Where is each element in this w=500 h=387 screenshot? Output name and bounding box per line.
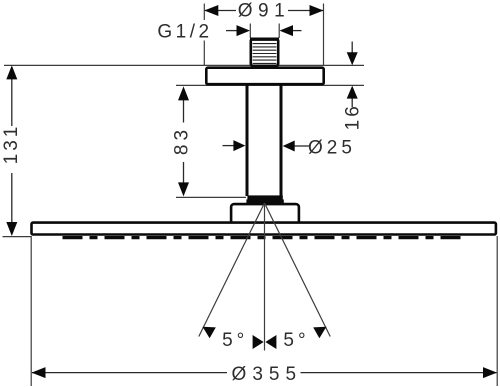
5° right outer arrowhead bbox=[313, 327, 326, 338]
pipe bbox=[247, 86, 281, 197]
svg-text:83: 83 bbox=[172, 126, 193, 155]
escutcheon base bbox=[231, 204, 299, 226]
spray fan lines bbox=[199, 203, 330, 351]
collar (threaded pipe end) bbox=[247, 195, 282, 200]
svg-text:Ø91: Ø91 bbox=[238, 1, 290, 22]
wire: 83 dim line lower bbox=[183, 162, 185, 183]
16 dimension (right) bbox=[351, 42, 353, 108]
thread right extension line bbox=[278, 24, 280, 39]
Ø91 right arrowhead bbox=[310, 5, 324, 16]
wire: 16 dim line above bbox=[351, 42, 353, 54]
Ø25 label with pointer bbox=[294, 145, 310, 147]
wire: G1/2 left pointer line bbox=[226, 30, 238, 32]
plate bottom-left extension line (131 dim) bbox=[3, 236, 32, 238]
svg-text:5°: 5° bbox=[283, 330, 309, 351]
Ø91 left arrowhead bbox=[204, 5, 218, 16]
wire: Ø355 dim line left bbox=[32, 372, 227, 374]
Ø91 dimension bbox=[205, 10, 323, 12]
83 top arrowhead bbox=[178, 86, 189, 100]
Ø25 pointer arrowhead bbox=[283, 141, 295, 152]
wire: 83 pointer line to pipe bbox=[223, 145, 236, 147]
svg-text:16: 16 bbox=[343, 103, 364, 130]
wire: 131 dim line upper bbox=[11, 79, 13, 127]
thread left extension line bbox=[249, 24, 251, 39]
wire: pipe left wall bbox=[246, 86, 249, 197]
flange plate bbox=[206, 68, 323, 85]
wire: Ø91 dim line left bbox=[205, 10, 236, 12]
flange top extension line bbox=[4, 64, 364, 66]
collar lower nut bbox=[246, 199, 283, 203]
shower plate bbox=[32, 223, 496, 235]
5° bowtie right arrowhead bbox=[265, 335, 276, 349]
wire: Ø25 pointer line bbox=[294, 145, 310, 147]
131 top arrowhead bbox=[6, 65, 17, 79]
thread body fill bbox=[251, 39, 278, 66]
G1/2 pointer arrows bbox=[226, 30, 302, 32]
83 bottom arrowhead bbox=[178, 182, 189, 196]
wire: 131 dim line lower bbox=[11, 173, 13, 224]
Ø355 right extension line bbox=[496, 236, 498, 386]
131 bottom arrowhead bbox=[6, 222, 17, 236]
wire: G1/2 right pointer line bbox=[292, 30, 302, 32]
pipe bottom extension line (83 dim) bbox=[176, 196, 246, 198]
131 dimension (left) bbox=[11, 79, 13, 224]
5° bowtie left arrowhead bbox=[253, 335, 264, 349]
nozzle dashes bbox=[63, 236, 467, 239]
Ø91 left extension line (upper) bbox=[203, 4, 205, 21]
83 pointer arrowhead at pipe bbox=[233, 140, 245, 151]
83 dimension (left of pipe) bbox=[184, 100, 236, 184]
Ø355 left arrowhead bbox=[32, 367, 46, 378]
svg-text:5°: 5° bbox=[222, 330, 248, 351]
wire: center spray line bbox=[264, 203, 266, 351]
flange bottom extension line bbox=[176, 84, 364, 86]
thread top thick edge bbox=[250, 38, 279, 41]
wire: right spray diagonal bbox=[265, 203, 331, 337]
wire: left spray diagonal bbox=[199, 203, 265, 337]
svg-text:Ø25: Ø25 bbox=[308, 138, 356, 159]
Ø355 left extension line bbox=[30, 236, 32, 386]
G1/2 left pointer arrowhead bbox=[237, 25, 251, 36]
5° left outer arrowhead bbox=[203, 327, 216, 338]
Ø91 right extension line bbox=[323, 4, 325, 67]
svg-text:Ø355: Ø355 bbox=[232, 364, 302, 385]
thread block G1/2 connector bbox=[250, 39, 279, 66]
Ø91 left extension line (lower, below G1/2 text) bbox=[203, 41, 205, 67]
svg-text:G1/2: G1/2 bbox=[157, 21, 212, 42]
Ø355 right arrowhead bbox=[483, 367, 497, 378]
wire: Ø355 dim line right bbox=[301, 372, 497, 374]
wire: pipe right wall bbox=[280, 86, 283, 197]
Ø355 dimension bbox=[32, 372, 497, 374]
thread ridges bbox=[253, 44, 277, 64]
G1/2 right pointer arrowhead bbox=[280, 25, 294, 36]
wire: 16 dim line below bbox=[351, 99, 353, 108]
16 bottom arrowhead (pointing up) bbox=[347, 86, 358, 99]
svg-text:131: 131 bbox=[1, 124, 22, 165]
wire: Ø91 dim line right bbox=[288, 10, 323, 12]
16 top arrowhead (pointing down) bbox=[347, 52, 358, 65]
wire: 83 dim line upper bbox=[183, 100, 185, 123]
